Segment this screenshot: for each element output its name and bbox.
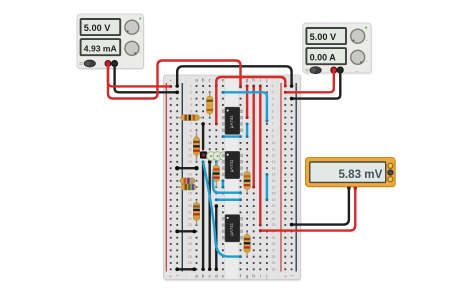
svg-text:18: 18: [272, 192, 276, 196]
svg-text:11: 11: [188, 147, 192, 151]
svg-text:25: 25: [188, 236, 192, 240]
svg-text:21: 21: [188, 211, 192, 215]
svg-text:30: 30: [272, 267, 276, 271]
svg-text:6: 6: [272, 116, 274, 120]
svg-text:4: 4: [272, 103, 274, 107]
svg-text:23: 23: [272, 223, 276, 227]
svg-text:2: 2: [272, 91, 274, 95]
svg-text:μA741: μA741: [229, 115, 234, 128]
svg-text:16: 16: [272, 179, 276, 183]
svg-text:5: 5: [190, 109, 192, 113]
svg-text:14: 14: [272, 166, 276, 170]
svg-text:9: 9: [190, 135, 192, 139]
svg-text:i: i: [260, 78, 261, 83]
svg-text:h: h: [252, 274, 255, 279]
svg-text:13: 13: [188, 160, 192, 164]
svg-text:15: 15: [188, 173, 192, 177]
svg-text:5: 5: [272, 109, 274, 113]
svg-text:27: 27: [188, 249, 192, 253]
svg-text:25: 25: [272, 236, 276, 240]
svg-text:7: 7: [272, 122, 274, 126]
svg-text:μA741: μA741: [229, 159, 234, 172]
svg-text:22: 22: [272, 217, 276, 221]
svg-text:j: j: [265, 78, 267, 83]
svg-text:−: −: [290, 274, 293, 280]
svg-text:b: b: [202, 274, 205, 279]
svg-text:1: 1: [190, 84, 192, 88]
svg-text:μA741: μA741: [229, 222, 234, 235]
svg-text:−: −: [176, 274, 179, 280]
svg-text:4: 4: [190, 103, 192, 107]
svg-text:a: a: [195, 78, 198, 83]
svg-text:4.93 mA: 4.93 mA: [84, 43, 117, 53]
svg-text:g: g: [246, 78, 249, 83]
svg-text:5.00 V: 5.00 V: [310, 32, 337, 42]
svg-text:10: 10: [188, 141, 192, 145]
svg-text:26: 26: [272, 242, 276, 246]
svg-text:26: 26: [188, 242, 192, 246]
svg-text:a: a: [195, 274, 198, 279]
svg-text:13: 13: [272, 160, 276, 164]
svg-text:10: 10: [272, 141, 276, 145]
svg-text:+: +: [169, 274, 172, 279]
svg-text:5.83 mV: 5.83 mV: [338, 168, 382, 181]
svg-text:20: 20: [272, 204, 276, 208]
svg-text:+: +: [169, 78, 172, 83]
svg-text:17: 17: [272, 185, 276, 189]
svg-text:0.00 A: 0.00 A: [310, 52, 337, 62]
svg-text:j: j: [265, 274, 267, 279]
svg-text:22: 22: [188, 217, 192, 221]
svg-text:27: 27: [272, 249, 276, 253]
svg-text:21: 21: [272, 211, 276, 215]
svg-text:15: 15: [272, 173, 276, 177]
svg-text:+: +: [284, 274, 287, 279]
svg-text:11: 11: [272, 147, 276, 151]
svg-text:9: 9: [272, 135, 274, 139]
svg-text:e: e: [222, 78, 225, 83]
svg-text:12: 12: [188, 154, 192, 158]
svg-text:3: 3: [272, 97, 274, 101]
svg-text:e: e: [222, 274, 225, 279]
svg-text:28: 28: [188, 255, 192, 259]
svg-text:20: 20: [188, 204, 192, 208]
svg-text:h: h: [252, 78, 255, 83]
svg-text:−: −: [120, 63, 122, 67]
svg-text:8: 8: [272, 128, 274, 132]
svg-text:29: 29: [272, 261, 276, 265]
svg-text:b: b: [202, 78, 205, 83]
svg-text:d: d: [215, 274, 218, 279]
svg-text:12: 12: [272, 154, 276, 158]
svg-text:3: 3: [190, 97, 192, 101]
svg-text:28: 28: [272, 255, 276, 259]
svg-text:19: 19: [272, 198, 276, 202]
svg-text:23: 23: [188, 223, 192, 227]
svg-text:8: 8: [190, 128, 192, 132]
svg-text:29: 29: [188, 261, 192, 265]
svg-text:5.00 V: 5.00 V: [84, 23, 111, 33]
svg-text:g: g: [246, 274, 249, 279]
svg-text:2: 2: [190, 91, 192, 95]
svg-text:i: i: [260, 274, 261, 279]
svg-text:18: 18: [188, 192, 192, 196]
svg-text:19: 19: [188, 198, 192, 202]
svg-text:7: 7: [190, 122, 192, 126]
svg-text:1: 1: [272, 84, 274, 88]
